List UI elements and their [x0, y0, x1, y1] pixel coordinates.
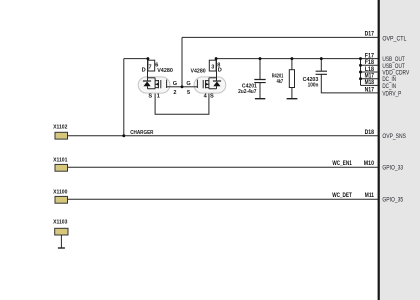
svg-text:7: 7: [148, 64, 151, 70]
wire OVP_CTL D17 to gate net: [182, 36, 378, 38]
Q1 gate insulator bar: [160, 80, 161, 88]
wire pin F18 stub: [361, 64, 379, 66]
Q2 channel bar: [205, 80, 206, 88]
svg-text:VDRV_P: VDRV_P: [382, 90, 401, 97]
node Q1 drain: [146, 57, 149, 60]
svg-text:M10: M10: [364, 160, 375, 167]
svg-text:V4280: V4280: [157, 68, 173, 74]
wire USB_OUT main bus: [216, 58, 378, 60]
node CHARGER junction: [122, 134, 125, 137]
IC U4201 left border: [378, 0, 380, 300]
wire pin M18 stub: [361, 84, 379, 86]
X1103 ground bar: [58, 247, 65, 249]
X1103 pad: [55, 228, 68, 235]
C4203 plates: [316, 71, 327, 74]
X1100 pad: [55, 196, 68, 203]
Q2 drain feed wire: [216, 59, 218, 81]
Q1 pin box 7: [148, 60, 155, 71]
node ladder M17: [359, 77, 362, 80]
svg-text:GPIO_33: GPIO_33: [382, 165, 403, 172]
X1102 pad: [55, 132, 68, 139]
svg-text:4k7: 4k7: [277, 79, 284, 85]
wire C4203 bottom to pin N17: [321, 74, 378, 93]
svg-text:OVP_CTL: OVP_CTL: [382, 35, 406, 42]
node Q2 drain: [215, 57, 218, 60]
capacitor C4203: [303, 59, 327, 89]
Q2 gate insulator bar: [203, 80, 204, 88]
wire CHARGER to Q1 drain: [124, 58, 148, 60]
Q1 gate wire: [167, 86, 182, 88]
svg-text:4: 4: [204, 93, 208, 99]
svg-text:100n: 100n: [308, 83, 319, 89]
Q2 body diode: [213, 82, 220, 87]
wire WC_EN1 row: [68, 166, 379, 168]
svg-text:X1103: X1103: [53, 220, 68, 226]
Q1 drain link: [148, 77, 155, 79]
svg-text:5: 5: [187, 90, 190, 96]
R4201 bottom lead: [291, 88, 293, 99]
svg-text:S: S: [148, 93, 152, 99]
svg-text:D17: D17: [365, 31, 375, 38]
svg-text:WC_EN1: WC_EN1: [332, 160, 352, 167]
connector X1100: [53, 189, 67, 203]
wire gate vertical feed: [181, 37, 183, 86]
wire pin M17 stub: [361, 78, 379, 80]
Q2 anode link: [209, 86, 217, 89]
Q2 pin box 3: [209, 60, 216, 71]
svg-text:2u2-4u7: 2u2-4u7: [238, 89, 256, 95]
svg-text:X1101: X1101: [53, 157, 68, 163]
wire pin L18 stub: [361, 71, 379, 73]
Q1 anode link: [148, 86, 156, 89]
C4201 ground bar: [255, 98, 265, 100]
connector X1103: [53, 220, 68, 248]
Q2 gate pin bar: [197, 80, 198, 88]
transistor Q1 V4280 (left MOSFET): [138, 59, 182, 100]
svg-text:1: 1: [157, 93, 160, 99]
junction dots: [122, 57, 362, 137]
C4201 plates: [254, 80, 265, 83]
Q1 drain feed wire: [147, 59, 149, 81]
C4201 bottom lead: [259, 83, 261, 99]
svg-text:X1102: X1102: [53, 124, 67, 130]
svg-text:WC_DET: WC_DET: [332, 192, 352, 199]
svg-text:V4280: V4280: [191, 69, 206, 75]
wire ladder vertical bus: [360, 59, 362, 86]
resistor R4201: [272, 59, 298, 99]
wire CHARGER / OVP_SNS row: [68, 135, 379, 137]
svg-text:G: G: [173, 81, 177, 87]
C4201 top lead: [259, 59, 261, 80]
svg-text:D18: D18: [365, 129, 375, 136]
svg-text:M11: M11: [365, 192, 375, 199]
Q2 arrow: [206, 83, 209, 86]
svg-text:3: 3: [211, 64, 214, 70]
node R4201 top: [290, 57, 293, 60]
connector X1101: [53, 157, 68, 171]
Q1 channel bar: [158, 80, 159, 88]
R4201 top lead: [291, 59, 293, 70]
svg-text:S: S: [210, 93, 214, 99]
wire source-source link Q1 Q2: [155, 89, 209, 115]
R4201 body: [289, 70, 294, 88]
transistor Q2 V4280 (right MOSFET, mirrored): [182, 59, 226, 100]
X1103 stub wire: [60, 235, 62, 248]
Q1 gate pin bar: [166, 80, 167, 88]
wire WC_DET row: [68, 198, 379, 200]
node C4203 top: [320, 57, 323, 60]
capacitor C4201: [238, 59, 266, 99]
Q2 channel rail: [208, 78, 210, 89]
node ladder F18: [359, 64, 362, 67]
svg-text:6: 6: [155, 62, 158, 68]
svg-text:OVP_SNS: OVP_SNS: [382, 133, 406, 140]
R4201 ground bar: [287, 98, 298, 100]
svg-text:D: D: [218, 68, 222, 74]
Q1 channel rail: [154, 78, 156, 89]
connector X1102: [53, 124, 67, 139]
C4203 top lead: [320, 59, 322, 71]
Q2 drain link: [209, 77, 216, 79]
Q1 diode cathode bar: [143, 80, 151, 82]
Q2 body outline: [194, 77, 226, 93]
node C4201 top: [259, 57, 262, 60]
X1101 pad: [55, 164, 68, 171]
svg-text:M18: M18: [365, 79, 375, 86]
Q1 arrow: [156, 83, 159, 86]
Q2 gate wire: [182, 86, 197, 88]
svg-text:N17: N17: [365, 87, 375, 94]
Q2 channel stubs: [206, 81, 209, 88]
svg-text:2: 2: [173, 90, 176, 96]
IC U4201 body (large gray block at right edge): [380, 0, 420, 300]
Q1 body diode: [144, 82, 151, 87]
wire CHARGER vertical: [123, 59, 125, 136]
node gate junction: [181, 85, 184, 88]
svg-text:D: D: [142, 68, 146, 74]
svg-text:G: G: [186, 81, 190, 87]
svg-text:DC_IN: DC_IN: [382, 83, 396, 90]
svg-text:GPIO_35: GPIO_35: [382, 197, 403, 204]
Q1 body outline: [138, 77, 170, 93]
svg-text:CHARGER: CHARGER: [130, 130, 154, 136]
Q1 channel stubs: [155, 81, 158, 88]
node ladder F17: [359, 57, 362, 60]
node ladder L18: [359, 71, 362, 74]
Q2 diode cathode bar: [213, 80, 221, 82]
svg-text:X1100: X1100: [53, 189, 67, 195]
